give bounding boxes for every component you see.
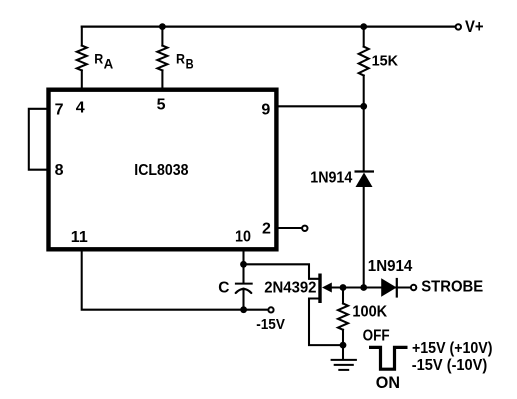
svg-text:ON: ON — [376, 374, 400, 392]
svg-text:2: 2 — [262, 221, 271, 238]
terminal -15V — [268, 307, 273, 312]
node dot gate/100K — [340, 284, 347, 291]
wire pin2 stub — [279, 227, 302, 229]
svg-text:R: R — [176, 51, 185, 67]
svg-text:V+: V+ — [465, 17, 484, 36]
node dot RB/top rail — [159, 23, 166, 30]
svg-text:+15V (+10V): +15V (+10V) — [412, 340, 493, 357]
label RB — [176, 51, 194, 72]
wire cap bottom to -15V rail — [242, 289, 244, 310]
node dot strobe rail/diode line — [360, 284, 367, 291]
resistor 15K — [359, 27, 369, 107]
wire ground stem — [342, 345, 344, 359]
svg-text:4: 4 — [76, 99, 85, 116]
svg-text:11: 11 — [71, 229, 88, 246]
resistor RB — [157, 27, 167, 90]
node dot pin9/15K — [360, 103, 367, 110]
wire 15K node down to diode — [363, 106, 365, 171]
svg-text:10: 10 — [235, 229, 251, 246]
waveform pulse symbol — [369, 347, 408, 369]
svg-text:1N914: 1N914 — [310, 170, 352, 187]
svg-text:C: C — [218, 279, 229, 296]
svg-text:9: 9 — [261, 101, 270, 118]
diode D1 1N914 vertical — [355, 172, 375, 188]
svg-text:STROBE: STROBE — [421, 278, 483, 295]
wire pin7-pin8 bracket — [29, 109, 47, 170]
wire cap node to top plate — [242, 264, 244, 283]
wire source path — [309, 299, 343, 346]
svg-text:-15V: -15V — [256, 316, 285, 333]
svg-text:-15V (-10V): -15V (-10V) — [412, 357, 488, 374]
node dot source/100K/ground — [340, 342, 347, 349]
svg-text:100K: 100K — [352, 303, 388, 320]
capacitor C — [235, 284, 253, 293]
node dot pin10/drain — [240, 261, 247, 268]
node dot 15K/top rail — [360, 23, 367, 30]
svg-text:A: A — [104, 57, 114, 72]
wire pin9 to 15K node — [279, 105, 364, 107]
wire gate to strobe — [332, 286, 412, 288]
terminal V+ — [456, 24, 461, 29]
svg-text:2N4392: 2N4392 — [264, 279, 316, 296]
svg-text:OFF: OFF — [363, 328, 390, 345]
wire top rail — [82, 26, 457, 28]
transistor Q1 2N4392 — [320, 274, 332, 304]
wire drain path — [244, 264, 319, 279]
svg-text:15K: 15K — [372, 53, 399, 70]
terminal pin2 — [302, 226, 307, 231]
resistor 100K — [338, 288, 348, 346]
wire diode anode down to strobe rail — [363, 187, 365, 288]
node dot cap/-15V rail — [240, 306, 247, 313]
svg-text:R: R — [94, 51, 103, 67]
svg-text:5: 5 — [157, 96, 166, 113]
op-amp U1 ICL8038 box — [49, 90, 277, 250]
svg-text:B: B — [186, 57, 194, 72]
wire pin11 down and right to -15V — [82, 252, 268, 310]
svg-text:8: 8 — [55, 162, 64, 179]
resistor RA — [77, 27, 87, 90]
wire pin10 down to cap node — [242, 252, 244, 265]
label RA — [94, 51, 113, 72]
svg-text:ICL8038: ICL8038 — [134, 162, 188, 179]
terminal STROBE — [411, 285, 416, 290]
svg-text:7: 7 — [55, 101, 64, 118]
ground — [331, 360, 357, 370]
svg-text:1N914: 1N914 — [368, 258, 413, 275]
diode D2 1N914 horizontal — [381, 278, 397, 298]
